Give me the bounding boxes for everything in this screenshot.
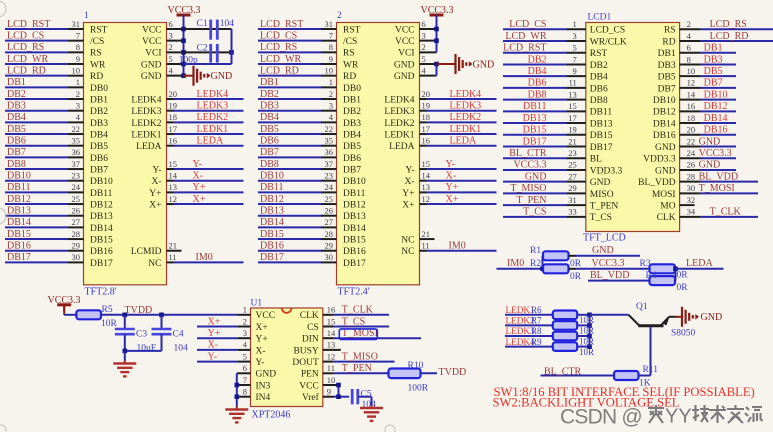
svg-text:MISO: MISO: [590, 190, 614, 200]
svg-text:7: 7: [329, 30, 333, 40]
svg-text:DB12: DB12: [90, 200, 113, 210]
svg-text:DB15: DB15: [260, 229, 284, 240]
svg-text:C3: C3: [136, 330, 147, 340]
svg-text:DB12: DB12: [343, 200, 366, 210]
svg-text:DB15: DB15: [7, 229, 31, 240]
wire net LEDK3 pin 19: [420, 100, 497, 111]
pin 21 LCMID stub: [167, 241, 182, 251]
svg-text:10: 10: [325, 65, 334, 75]
svg-text:DB1: DB1: [90, 95, 108, 105]
svg-text:DB5: DB5: [90, 142, 108, 152]
svg-text:LCD_WR: LCD_WR: [505, 31, 546, 42]
svg-text:15: 15: [327, 316, 336, 326]
svg-text:12: 12: [687, 78, 696, 88]
svg-text:X-: X-: [208, 340, 219, 351]
wire power pin 3: [420, 30, 437, 40]
wire net TVDD to U1 pin 1: [101, 305, 251, 315]
svg-text:GND: GND: [590, 178, 611, 188]
wire net LEDK3 pin 19: [167, 100, 244, 111]
svg-text:IN4: IN4: [256, 393, 271, 403]
svg-text:7: 7: [76, 30, 80, 40]
svg-text:NC: NC: [401, 247, 414, 257]
svg-text:19: 19: [169, 100, 178, 110]
wire cap mid row: [184, 50, 234, 55]
svg-text:TVDD: TVDD: [125, 305, 153, 316]
wire net GND pin 26 (LCD1 right): [655, 160, 736, 177]
wire net GND from R1: [569, 245, 641, 256]
wire caps join to ground: [123, 349, 162, 363]
wire net DB6 pin 35: [5, 136, 84, 147]
wire net DB2 pin 7 (LCD1 left): [503, 54, 608, 71]
resistor R9 10R: [553, 342, 594, 357]
svg-text:1: 1: [84, 11, 89, 21]
svg-text:104: 104: [220, 19, 235, 29]
svg-text:100p: 100p: [179, 55, 198, 65]
svg-text:RS: RS: [90, 49, 102, 59]
svg-text:RD: RD: [662, 37, 675, 47]
svg-text:LEDK2: LEDK2: [450, 112, 482, 123]
svg-text:3: 3: [329, 100, 333, 110]
svg-text:DB13: DB13: [7, 206, 31, 217]
svg-text:LEDK1: LEDK1: [384, 130, 414, 140]
svg-text:LCD_RS: LCD_RS: [260, 42, 297, 53]
svg-text:DB15: DB15: [343, 235, 366, 245]
wire net Y+ U1 pin 3: [197, 328, 251, 339]
svg-text:LCD_RST: LCD_RST: [7, 19, 50, 30]
svg-text:DB7: DB7: [260, 147, 279, 158]
wire net LCD_RS pin 2 (LCD1 right): [664, 19, 773, 36]
wire net DB2 pin 2: [258, 89, 337, 100]
svg-text:5: 5: [169, 54, 173, 64]
wire net LCD_RST pin 31: [258, 19, 337, 30]
svg-text:LCD_CS: LCD_CS: [260, 30, 297, 41]
svg-text:DB4: DB4: [528, 66, 547, 77]
svg-text:DB14: DB14: [343, 224, 366, 234]
svg-text:RD: RD: [90, 72, 103, 82]
svg-text:9: 9: [329, 54, 333, 64]
svg-text:DB3: DB3: [90, 119, 108, 129]
svg-text:21: 21: [422, 229, 431, 239]
wire net LCD_RST pin 5 (LCD1 left): [503, 43, 607, 60]
wire power pin 2: [167, 42, 184, 52]
svg-text:9: 9: [76, 54, 80, 64]
title TFT_LCD: [583, 233, 626, 244]
title XPT2046: [252, 410, 291, 421]
svg-text:16: 16: [169, 136, 178, 146]
wire net Y- U1 pin 5: [197, 351, 251, 362]
svg-text:2: 2: [687, 19, 691, 29]
svg-text:31: 31: [568, 195, 577, 205]
svg-text:DB5: DB5: [658, 73, 676, 83]
svg-text:31: 31: [72, 19, 81, 29]
svg-text:T_CS: T_CS: [523, 207, 546, 218]
svg-text:12: 12: [169, 194, 178, 204]
svg-text:LEDK4: LEDK4: [197, 89, 229, 100]
wire net DB16 pin 29: [258, 241, 337, 252]
svg-text:LEDK1: LEDK1: [450, 124, 482, 135]
svg-text:DB11: DB11: [523, 101, 547, 112]
svg-text:DB17: DB17: [7, 252, 31, 263]
svg-text:DB13: DB13: [90, 212, 113, 222]
svg-text:0R: 0R: [677, 283, 689, 293]
svg-text:LCD_WR: LCD_WR: [7, 54, 48, 65]
svg-text:25: 25: [325, 194, 334, 204]
svg-text:1: 1: [243, 305, 247, 315]
svg-text:R8: R8: [531, 326, 542, 336]
wire power pin 3: [167, 30, 184, 40]
wire net DB15 pin 28: [258, 229, 337, 240]
svg-text:WR: WR: [343, 60, 359, 70]
svg-text:X-: X-: [256, 346, 266, 356]
svg-text:GND: GND: [655, 143, 676, 153]
svg-text:GND: GND: [525, 171, 547, 182]
svg-text:VCC: VCC: [142, 25, 162, 35]
svg-text:14: 14: [169, 171, 178, 181]
svg-text:35: 35: [72, 136, 81, 146]
svg-text:104: 104: [174, 344, 189, 354]
wire net DB10 pin 23: [5, 171, 84, 182]
wire net DB1 pin 1: [5, 77, 84, 88]
svg-text:15: 15: [568, 101, 577, 111]
svg-text:TFT_LCD: TFT_LCD: [583, 233, 626, 244]
svg-text:LEDK3: LEDK3: [450, 100, 482, 111]
note SW1: [494, 385, 755, 399]
wire net LCD_RST pin 31: [5, 19, 84, 30]
wire net LCD_CS pin 7: [5, 30, 84, 41]
wire net DB14 pin 27: [5, 217, 84, 228]
svg-text:DB17: DB17: [590, 143, 613, 153]
svg-text:9: 9: [327, 387, 331, 397]
resistor R6 10R: [553, 311, 594, 326]
svg-text:GND: GND: [141, 72, 162, 82]
wire net DB8 pin 37: [258, 159, 337, 170]
watermark CSDN: [560, 405, 642, 428]
wire net DB7 pin 12 (LCD1 right): [658, 78, 736, 95]
svg-text:VCC: VCC: [142, 37, 162, 47]
svg-text:DB10: DB10: [260, 171, 284, 182]
wire cap right rail: [231, 29, 233, 64]
wire net T_CLK pin 34 (LCD1 right): [657, 207, 758, 224]
svg-text:10uF: 10uF: [137, 344, 157, 354]
svg-text:DB7: DB7: [704, 78, 723, 89]
svg-text:DB13: DB13: [260, 206, 284, 217]
svg-text:8: 8: [243, 387, 247, 397]
wire VCC3.3 to R5: [64, 305, 76, 315]
svg-text:IM0: IM0: [507, 258, 524, 269]
svg-text:T_PEN: T_PEN: [342, 363, 372, 374]
svg-text:100R: 100R: [408, 384, 429, 394]
svg-text:DB1: DB1: [260, 77, 279, 88]
wire net VCC3.3 pin 25 (LCD1 left): [503, 160, 623, 177]
wire net NC pin 32 (LCD1 right): [660, 195, 695, 212]
svg-text:LEDA: LEDA: [450, 136, 477, 147]
svg-text:1: 1: [573, 19, 577, 29]
svg-text:X+: X+: [208, 316, 221, 327]
svg-text:30: 30: [687, 183, 696, 193]
svg-text:12: 12: [422, 194, 431, 204]
svg-text:DB2: DB2: [260, 89, 279, 100]
capacitor C1 104: [197, 19, 235, 40]
svg-text:29: 29: [568, 183, 577, 193]
svg-text:Y-: Y-: [153, 165, 162, 175]
svg-text:DB8: DB8: [590, 96, 608, 106]
svg-text:3: 3: [422, 30, 426, 40]
svg-text:DB7: DB7: [90, 165, 108, 175]
svg-text:31: 31: [325, 19, 334, 29]
svg-text:LEDA: LEDA: [136, 142, 161, 152]
svg-text:X+: X+: [149, 200, 161, 210]
svg-text:Y+: Y+: [256, 335, 268, 345]
svg-text:27: 27: [325, 217, 334, 227]
svg-text:DB11: DB11: [260, 182, 284, 193]
svg-text:DB4: DB4: [590, 73, 608, 83]
svg-text:22: 22: [72, 124, 81, 134]
wire net DB4 pin 9 (LCD1 left): [503, 66, 608, 83]
svg-text:DB4: DB4: [260, 112, 279, 123]
resistor R11 1K: [614, 365, 658, 389]
svg-text:T_CS: T_CS: [590, 213, 612, 223]
svg-text:LEDA: LEDA: [389, 142, 414, 152]
svg-text:LCD_RST: LCD_RST: [260, 19, 303, 30]
svg-text:16: 16: [687, 101, 696, 111]
svg-text:36: 36: [72, 147, 81, 157]
svg-text:23: 23: [325, 171, 334, 181]
svg-text:LEDK2: LEDK2: [384, 119, 414, 129]
svg-text:VCC: VCC: [395, 37, 415, 47]
svg-text:DB13: DB13: [523, 113, 547, 124]
svg-text:LEDK3: LEDK3: [131, 107, 161, 117]
wire net DB7 pin 36: [258, 147, 337, 158]
svg-text:17: 17: [568, 113, 577, 123]
svg-text:10: 10: [72, 65, 81, 75]
svg-text:RST: RST: [343, 25, 361, 35]
watermark YY: [665, 406, 692, 428]
wire net IM0 to R1 R2: [497, 256, 545, 271]
svg-text:DB11: DB11: [7, 182, 31, 193]
svg-text:U1: U1: [251, 299, 263, 309]
svg-text:GND: GND: [699, 136, 721, 147]
svg-text:0R: 0R: [570, 259, 582, 269]
svg-text:X-: X-: [151, 177, 161, 187]
wire net DB13 pin 17 (LCD1 left): [503, 113, 613, 130]
decorative faint circles: [0, 1, 395, 432]
wire net X- pin 14: [167, 171, 244, 182]
note SW2: [493, 396, 680, 410]
svg-text:DB14: DB14: [653, 119, 676, 129]
svg-text:LEDK4: LEDK4: [384, 95, 414, 105]
svg-text:VCC3.3: VCC3.3: [592, 258, 625, 269]
svg-text:BL: BL: [590, 155, 602, 165]
designator 2: [337, 11, 342, 21]
wire Q1 emitter to GND: [669, 316, 682, 318]
svg-text:T_MOSI: T_MOSI: [699, 183, 735, 194]
svg-text:DB2: DB2: [590, 61, 608, 71]
svg-text:21: 21: [568, 136, 577, 146]
svg-text:DB3: DB3: [658, 61, 676, 71]
svg-text:LCD_WR: LCD_WR: [260, 54, 301, 65]
svg-text:29: 29: [72, 241, 81, 251]
svg-text:30: 30: [325, 252, 334, 262]
svg-text:Y-: Y-: [446, 159, 455, 170]
svg-text:GND: GND: [211, 71, 233, 82]
wire net T_CLK U1 pin 16: [323, 305, 389, 316]
wire net LCD_RD pin 10: [258, 65, 337, 76]
svg-text:37: 37: [325, 159, 334, 169]
svg-text:14: 14: [327, 328, 336, 338]
svg-text:X-: X-: [446, 171, 457, 182]
svg-text:25: 25: [568, 160, 577, 170]
svg-text:6: 6: [243, 363, 247, 373]
wire net BL_VDD to R4: [588, 270, 650, 281]
svg-text:8: 8: [329, 42, 333, 52]
svg-text:DB16: DB16: [653, 131, 676, 141]
svg-text:DB10: DB10: [653, 96, 676, 106]
watermark glyph ji: [692, 405, 709, 422]
wire net T_CS pin 33 (LCD1 left): [503, 207, 612, 224]
svg-text:C2: C2: [197, 43, 208, 53]
svg-text:Vref: Vref: [302, 392, 320, 403]
wire net X+ pin 12: [167, 194, 244, 205]
wire net T_MOSI pin 30 (LCD1 right): [652, 183, 758, 200]
wire VCC rail block2: [434, 15, 439, 52]
svg-text:25: 25: [72, 194, 81, 204]
svg-text:DB7: DB7: [7, 147, 26, 158]
wire net Y- pin 15: [420, 159, 497, 170]
svg-text:4: 4: [687, 31, 692, 41]
svg-text:DB1: DB1: [7, 77, 26, 88]
wire net LEDK4 pin 20: [420, 89, 497, 100]
ground GND at Q1: [682, 307, 722, 327]
wire power pin 2: [420, 42, 437, 52]
svg-text:2: 2: [422, 42, 426, 52]
wire net LEDK2 pin 18: [420, 112, 497, 123]
svg-text:DB8: DB8: [528, 89, 547, 100]
wire net IM0 pin 11: [420, 241, 497, 252]
wire net LEDK2 pin 18: [167, 112, 244, 123]
svg-text:VCC3.3: VCC3.3: [513, 160, 546, 171]
svg-text:DB5: DB5: [343, 142, 361, 152]
designator 1: [84, 11, 89, 21]
svg-text:C4: C4: [173, 330, 184, 340]
svg-text:DB1: DB1: [658, 49, 676, 59]
watermark glyph jiao: [727, 405, 744, 423]
wire net DB14 pin 18 (LCD1 right): [653, 113, 736, 130]
svg-text:DB11: DB11: [90, 189, 113, 199]
resistor R10 100R: [389, 361, 429, 394]
wire net LEDA pin 16: [420, 136, 497, 147]
wire net LEDK4 to R9: [505, 337, 553, 347]
wire power pin 5: [167, 54, 184, 64]
resistor R5 10R: [76, 305, 117, 329]
svg-text:XPT2046: XPT2046: [252, 410, 291, 421]
wire net LCD_WR pin 3 (LCD1 left): [503, 31, 627, 48]
svg-text:LEDK1: LEDK1: [197, 124, 229, 135]
svg-text:DB1: DB1: [704, 43, 723, 54]
svg-text:26: 26: [325, 206, 334, 216]
wire net DB13 pin 26: [5, 206, 84, 217]
wire net LCD_RD pin 10: [5, 65, 84, 76]
wire net IM0 pin 11: [167, 252, 244, 263]
wire net LEDK3 to R8: [505, 326, 553, 336]
svg-text:IM0: IM0: [449, 241, 466, 252]
svg-text:10R: 10R: [101, 319, 118, 329]
svg-text:LCD_RS: LCD_RS: [710, 19, 747, 30]
wire net DB6 pin 35: [258, 136, 337, 147]
svg-text:16: 16: [422, 136, 431, 146]
wire net Y+ pin 13: [420, 182, 497, 193]
wire net DB5 pin 22: [5, 124, 84, 135]
wire net LCD_RS pin 8: [258, 42, 337, 53]
watermark glyph shu: [709, 405, 726, 423]
pin names TFT2.8': [90, 25, 162, 268]
svg-text:CSDN @: CSDN @: [560, 405, 642, 428]
wire net T_MISO U1 pin 12: [323, 351, 395, 362]
svg-text:DB8: DB8: [7, 159, 26, 170]
wire net LCD_RS pin 8: [5, 42, 84, 53]
svg-text:Y-: Y-: [256, 358, 265, 368]
transistor Q1 S8050: [629, 302, 696, 339]
svg-text:T_CLK: T_CLK: [710, 207, 742, 218]
svg-text:2: 2: [329, 89, 333, 99]
svg-text:18: 18: [687, 113, 696, 123]
svg-text:Y-: Y-: [193, 159, 202, 170]
svg-text:R7: R7: [531, 316, 542, 326]
power VCC3.3 block2: [421, 5, 454, 22]
wire net LCD_RD pin 4 (LCD1 right): [662, 31, 773, 48]
svg-text:14: 14: [422, 171, 431, 181]
svg-text:DB7: DB7: [658, 84, 676, 94]
wire net GND pin 27 (LCD1 left): [503, 171, 611, 188]
wire net VCC3.3 pin 24 (LCD1 right): [643, 148, 736, 165]
wire net X- pin 14: [420, 171, 497, 182]
wire net X+ U1 pin 2: [197, 316, 251, 327]
svg-text:BUSY: BUSY: [293, 346, 318, 356]
wire R8 to bus: [577, 334, 592, 339]
svg-text:LEDK2: LEDK2: [197, 112, 229, 123]
svg-text:DOUT: DOUT: [292, 358, 319, 368]
svg-text:DB5: DB5: [7, 124, 26, 135]
wire net LCD_WR pin 9: [5, 54, 84, 65]
svg-text:R4: R4: [646, 271, 657, 281]
svg-text:LEDK4: LEDK4: [450, 89, 482, 100]
svg-text:LEDK2: LEDK2: [131, 119, 161, 129]
svg-text:DB14: DB14: [704, 113, 728, 124]
ground GND block2: [437, 54, 495, 74]
svg-text:S8050: S8050: [671, 329, 696, 339]
wire net DB11 pin 15 (LCD1 left): [503, 101, 612, 118]
wire GND rail block2: [434, 62, 439, 76]
svg-text:DB15: DB15: [523, 125, 547, 136]
svg-text:Q1: Q1: [636, 302, 648, 312]
svg-text:WR: WR: [90, 60, 106, 70]
svg-text:CLK: CLK: [300, 311, 319, 321]
wire net VCC3.3 R2 to R3: [569, 258, 650, 269]
wire net DB16 pin 20 (LCD1 right): [653, 125, 736, 142]
wire net DB2 pin 2: [5, 89, 84, 100]
wire net DB13 pin 26: [258, 206, 337, 217]
svg-text:17: 17: [422, 124, 431, 134]
svg-text:33: 33: [568, 207, 577, 217]
svg-text:T_PEN: T_PEN: [517, 195, 547, 206]
svg-text:DB3: DB3: [7, 100, 26, 111]
svg-text:NC: NC: [401, 235, 414, 245]
title TFT2.8': [85, 287, 117, 298]
svg-text:1: 1: [329, 77, 333, 87]
wire net LEDK1 pin 17: [167, 124, 244, 135]
wire net Y- pin 15: [167, 159, 244, 170]
svg-text:X-: X-: [193, 171, 204, 182]
svg-text:2: 2: [169, 42, 173, 52]
